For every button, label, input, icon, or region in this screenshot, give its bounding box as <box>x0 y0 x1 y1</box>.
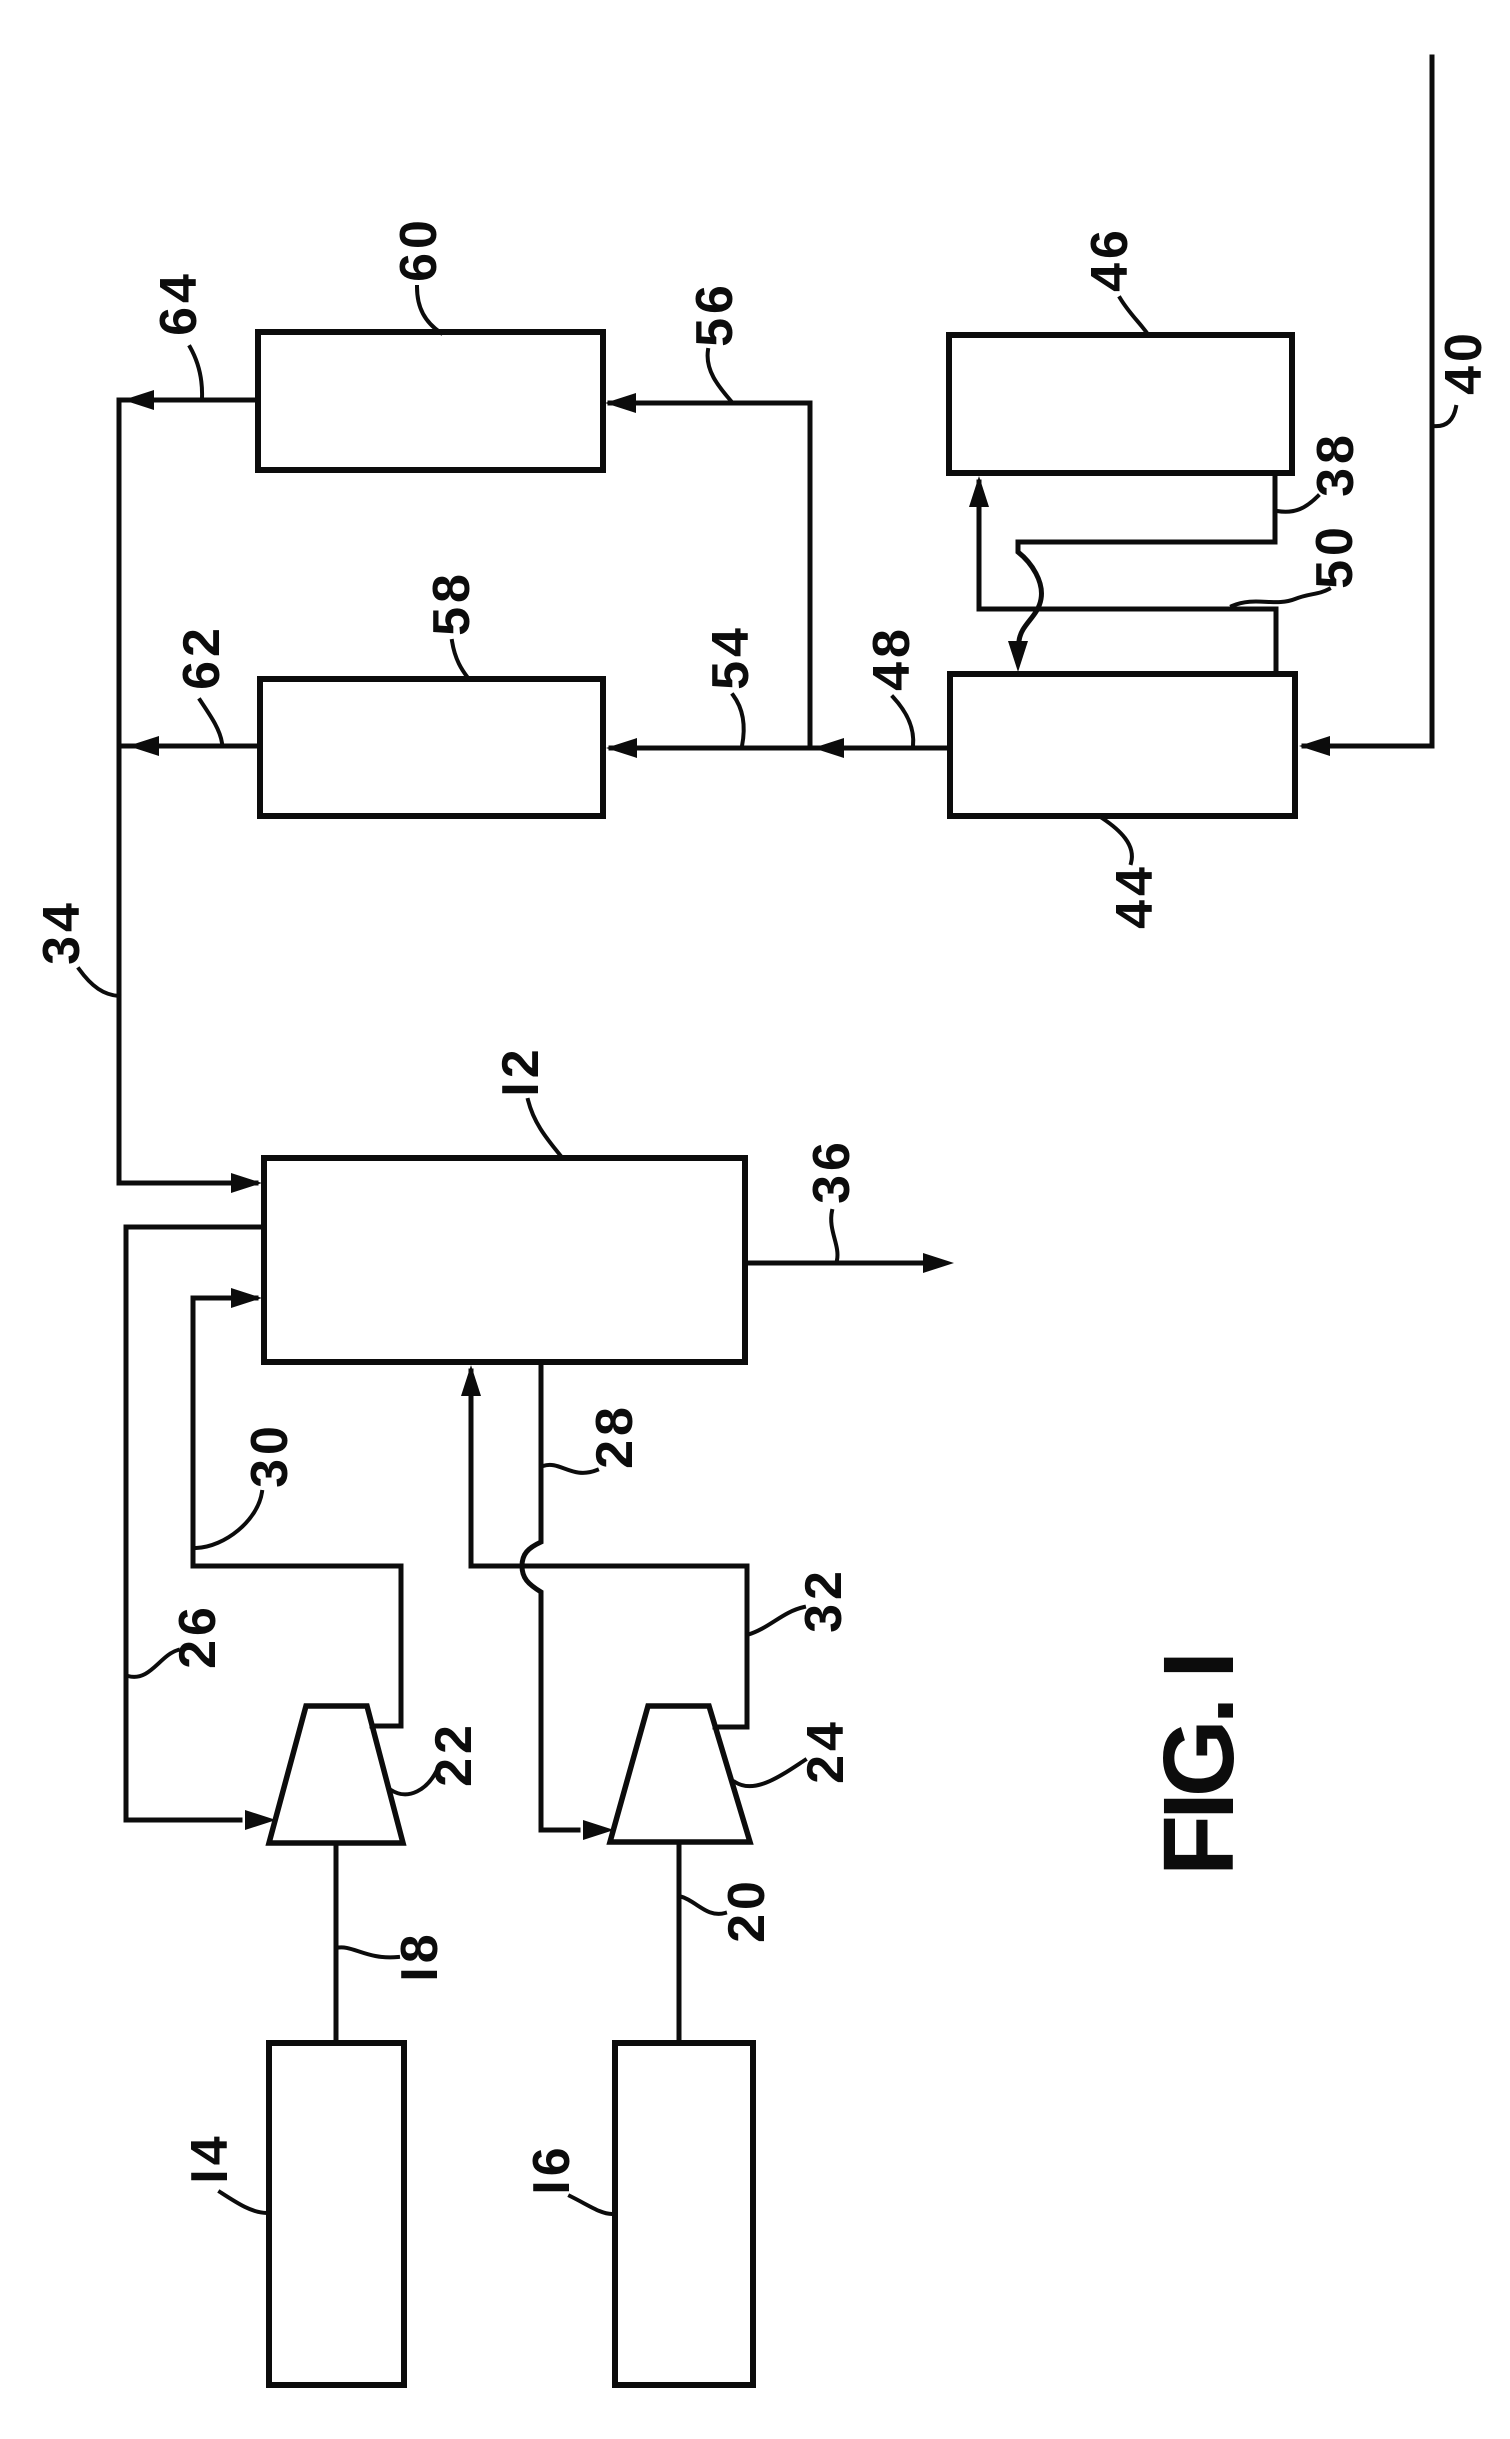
svg-text:26: 26 <box>169 1603 227 1669</box>
svg-text:I6: I6 <box>523 2143 581 2194</box>
svg-text:64: 64 <box>150 270 208 336</box>
svg-text:46: 46 <box>1081 226 1139 292</box>
svg-text:FIG. I: FIG. I <box>1143 1656 1255 1876</box>
svg-text:50: 50 <box>1306 523 1364 589</box>
svg-text:56: 56 <box>686 281 744 347</box>
svg-text:28: 28 <box>586 1403 644 1469</box>
svg-text:44: 44 <box>1106 863 1164 929</box>
svg-text:24: 24 <box>797 1718 855 1784</box>
svg-text:I4: I4 <box>181 2132 239 2183</box>
svg-text:62: 62 <box>173 624 231 690</box>
svg-text:30: 30 <box>241 1422 299 1488</box>
svg-text:40: 40 <box>1435 329 1493 395</box>
svg-text:54: 54 <box>702 624 760 690</box>
svg-text:36: 36 <box>803 1138 861 1204</box>
svg-text:I2: I2 <box>492 1045 550 1096</box>
svg-text:58: 58 <box>423 570 481 636</box>
svg-text:48: 48 <box>863 625 921 691</box>
svg-text:38: 38 <box>1307 431 1365 497</box>
svg-text:20: 20 <box>718 1877 776 1943</box>
svg-text:22: 22 <box>425 1721 483 1787</box>
svg-text:34: 34 <box>33 899 91 965</box>
svg-text:32: 32 <box>795 1567 853 1633</box>
svg-text:I8: I8 <box>391 1930 449 1981</box>
svg-text:60: 60 <box>390 216 448 282</box>
